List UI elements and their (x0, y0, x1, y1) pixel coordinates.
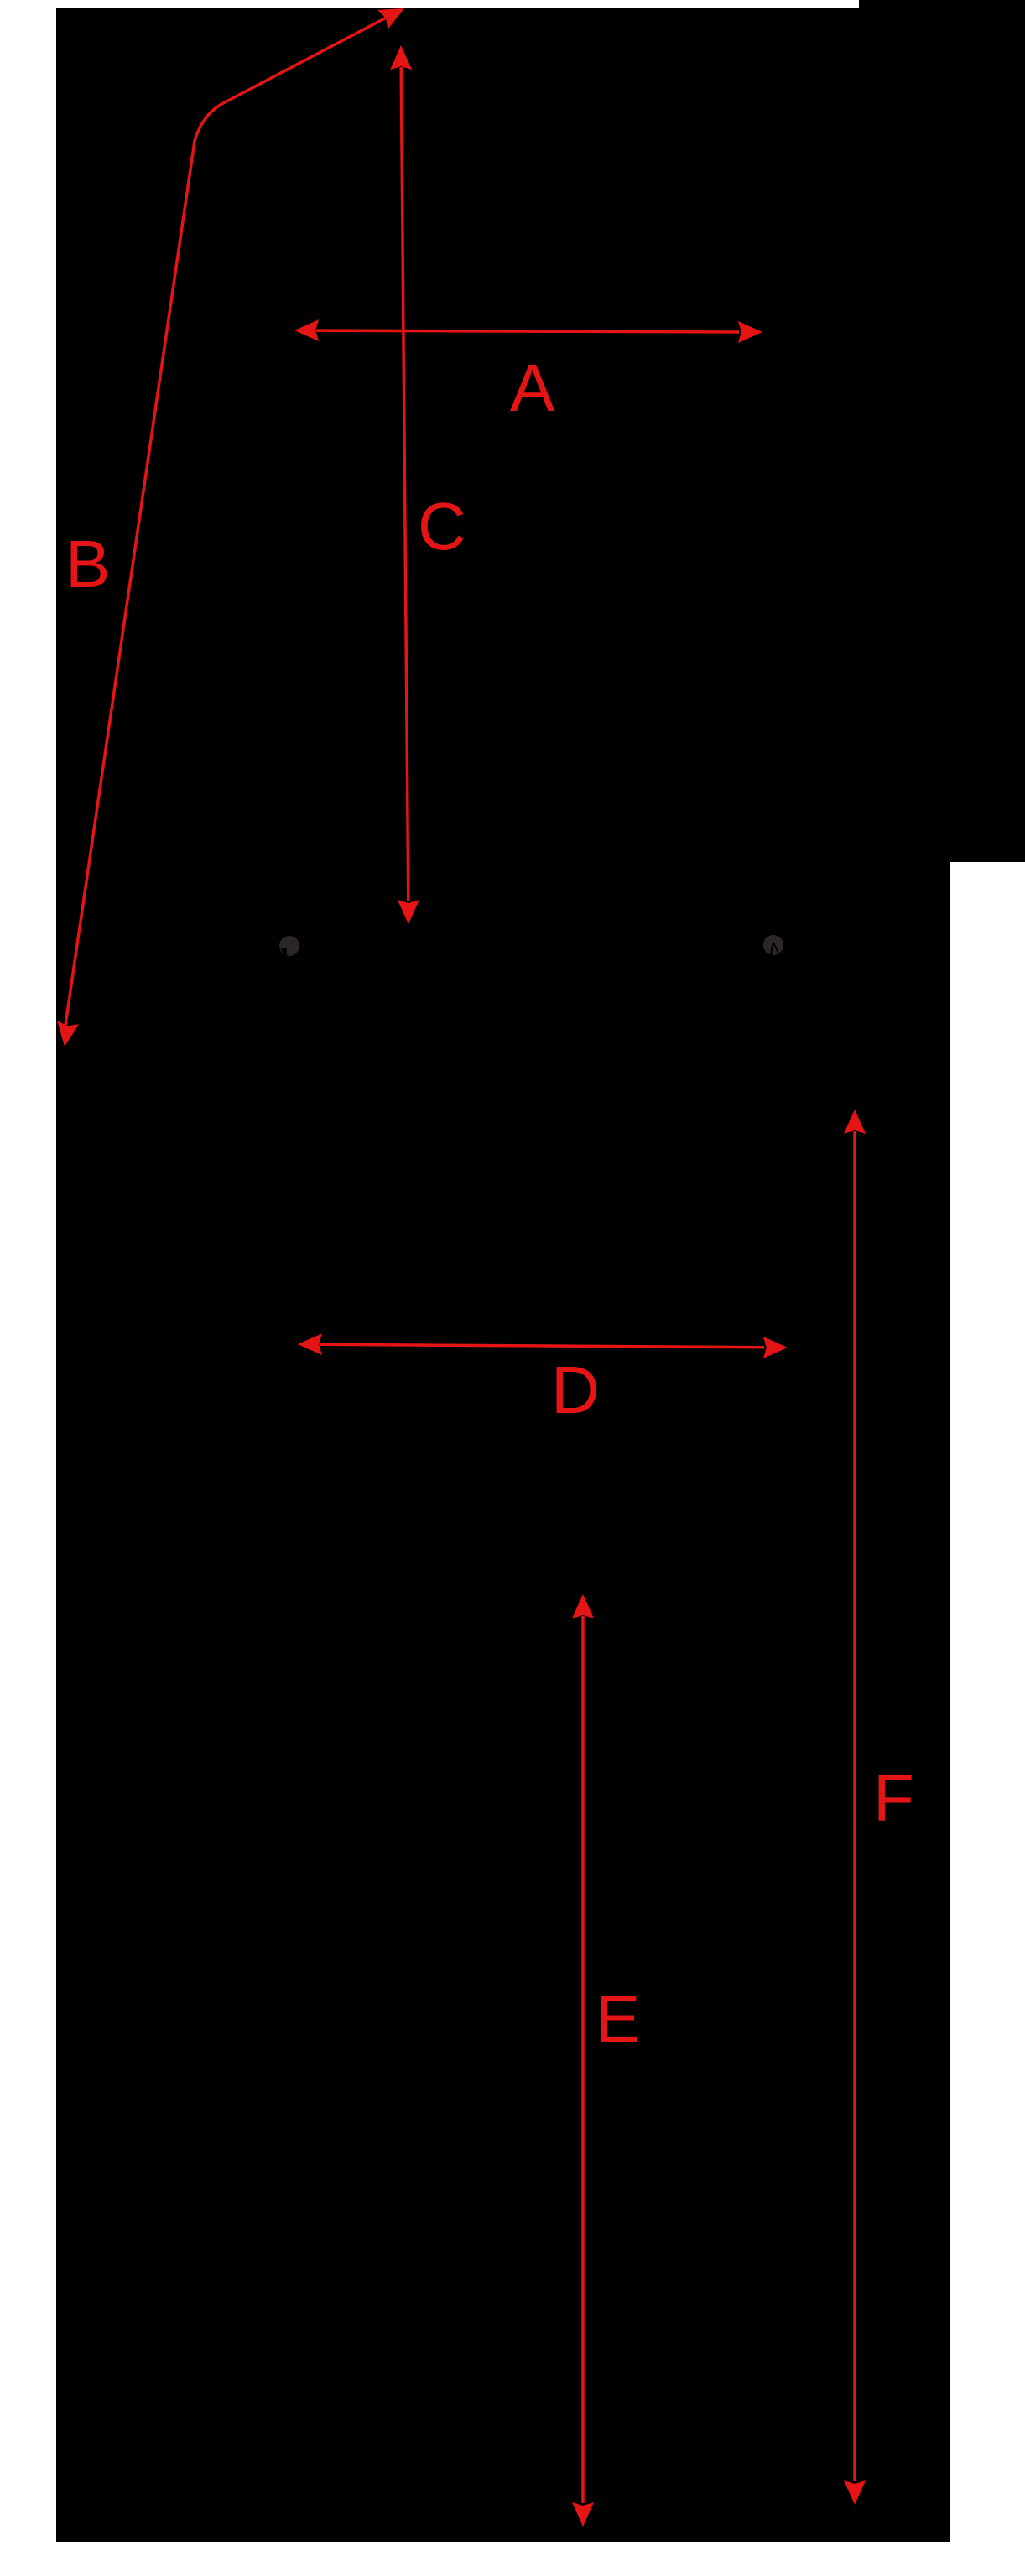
svg-text:B: B (65, 527, 110, 601)
svg-text:F: F (873, 1761, 914, 1836)
svg-text:D: D (551, 1353, 600, 1427)
photo band top-right (859, 0, 1025, 862)
snap button right (763, 935, 783, 955)
arrow E (572, 1594, 594, 2527)
arrow A (294, 319, 762, 343)
svg-text:E: E (596, 1981, 640, 2056)
svg-text:C: C (418, 489, 466, 563)
arrow F (844, 1109, 866, 2505)
arrow B (57, 8, 404, 1046)
snap button left (279, 936, 299, 958)
svg-text:A: A (510, 351, 555, 425)
arrow D (298, 1333, 788, 1358)
arrow C (390, 45, 419, 924)
